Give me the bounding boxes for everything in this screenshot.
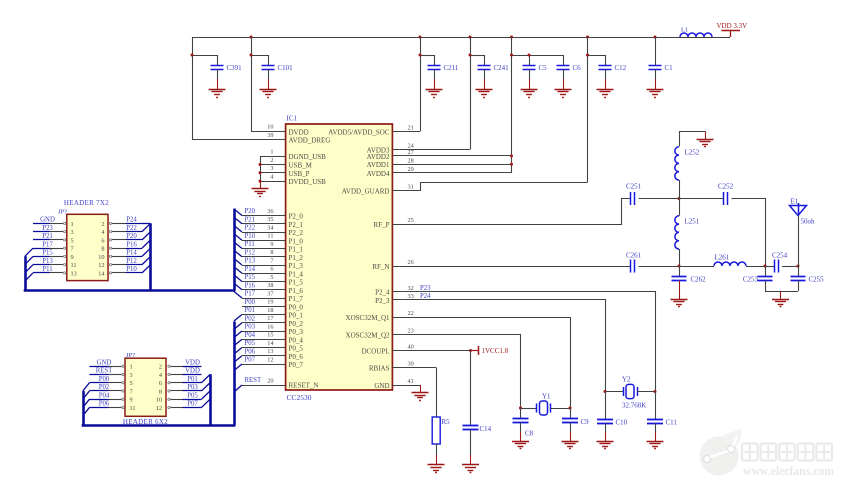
capacitor C12 [599,64,627,89]
svg-text:P13: P13 [42,258,53,265]
svg-text:USB_P: USB_P [289,170,310,178]
svg-text:AVDD_GUARD: AVDD_GUARD [342,187,390,195]
svg-text:P10: P10 [245,233,256,240]
svg-text:Y2: Y2 [622,376,631,384]
svg-text:7: 7 [130,388,133,395]
capacitor C101 [262,64,294,89]
svg-text:L251: L251 [685,218,700,226]
svg-text:C14: C14 [480,425,492,433]
svg-text:32.768K: 32.768K [622,402,646,410]
svg-text:L261: L261 [715,254,730,262]
svg-text:C9: C9 [581,418,590,426]
svg-text:CC2530: CC2530 [287,393,312,402]
svg-text:P0_1: P0_1 [289,312,304,320]
svg-text:P24: P24 [420,293,431,300]
svg-text:www.elecfans.com: www.elecfans.com [743,464,835,478]
wire JP7 bottom bus [24,289,236,292]
resistor R5 [432,417,450,444]
wire C211 branch [419,37,435,131]
svg-text:8: 8 [270,249,273,256]
svg-text:P05: P05 [245,340,256,347]
wire P-port pin stubs [242,216,286,365]
svg-text:37: 37 [267,290,273,297]
svg-text:P22: P22 [126,225,137,232]
svg-text:36: 36 [267,208,273,215]
svg-text:P04: P04 [99,392,110,399]
wire JP6 bottom bus [82,424,236,427]
svg-text:20: 20 [267,377,273,384]
svg-text:C6: C6 [573,64,582,72]
wire JP6 left bus entries [83,383,90,416]
svg-text:P12: P12 [245,249,256,256]
ground [412,393,429,401]
svg-text:17: 17 [267,315,273,322]
wire C5 C6 branch [510,37,564,173]
wire RESET_N stub [242,385,286,387]
svg-text:6: 6 [159,380,162,387]
svg-text:C241: C241 [494,64,510,72]
svg-text:P03: P03 [245,324,256,331]
svg-text:RESET_N: RESET_N [289,382,319,390]
svg-text:40: 40 [408,344,414,351]
svg-text:30: 30 [408,361,414,368]
svg-text:39: 39 [267,132,273,139]
svg-text:10: 10 [156,397,162,404]
capacitor C8 [513,408,534,441]
svg-text:XOSC32M_Q1: XOSC32M_Q1 [346,314,390,322]
svg-text:C251: C251 [626,183,642,191]
svg-text:9: 9 [71,254,74,261]
svg-text:L252: L252 [685,149,700,157]
svg-text:C253: C253 [743,276,759,284]
svg-text:28: 28 [408,157,414,164]
svg-text:32: 32 [408,285,414,292]
capacitor C5 [523,64,548,89]
ground [209,90,226,98]
ground [562,442,579,449]
capacitor C9 [562,408,589,441]
svg-text:P21: P21 [245,216,256,223]
svg-text:C261: C261 [626,252,642,260]
wire JP6 left bus [82,391,85,426]
svg-text:P15: P15 [245,274,256,281]
wire JP6 right bus [209,374,212,425]
wire JP7 right bus entries [142,223,151,272]
svg-text:38: 38 [267,282,273,289]
wire C252 to RFN node [732,199,766,267]
antenna E1 [790,198,816,226]
wire top power rail [192,37,730,140]
capacitor C251 [626,183,642,206]
svg-text:AVDD5/AVDD_SOC: AVDD5/AVDD_SOC [328,128,390,136]
svg-text:RF_N: RF_N [372,263,389,271]
svg-text:VDD: VDD [185,359,200,366]
ground [512,442,529,449]
svg-text:9: 9 [270,241,273,248]
svg-text:34: 34 [267,224,274,231]
svg-text:8: 8 [101,246,104,253]
ground [476,90,493,98]
svg-text:P22: P22 [245,225,256,232]
svg-text:P12: P12 [126,258,137,265]
svg-text:GND: GND [40,217,55,224]
svg-text:P24: P24 [126,217,137,224]
svg-text:AVDD4: AVDD4 [367,170,390,178]
wire pin29 AVDD4 [392,172,511,174]
svg-text:P16: P16 [245,282,256,289]
wire bus entries P01-P07 and REST [234,315,242,393]
ground [647,90,664,98]
svg-text:L1: L1 [681,27,688,34]
svg-text:P07: P07 [245,357,256,364]
wire JP6 right bus entries [202,375,211,408]
svg-text:USB_M: USB_M [289,162,313,170]
svg-text:18: 18 [267,307,273,314]
svg-text:P02: P02 [245,315,256,322]
svg-text:11: 11 [71,262,77,269]
svg-text:VDD 3.3V: VDD 3.3V [717,22,748,30]
svg-text:GND: GND [97,359,112,366]
ground [426,90,443,98]
wire pin26 RF_N [392,266,630,268]
svg-text:13: 13 [267,348,273,355]
ground [555,90,572,98]
svg-text:C10: C10 [616,419,628,427]
svg-text:1: 1 [270,149,273,156]
svg-text:C252: C252 [718,183,734,191]
wire pin25 RF_P [393,199,631,225]
wire USB pins to ground [259,156,286,188]
svg-text:P2_4: P2_4 [375,289,390,297]
wire C241 branch [469,37,485,149]
inductor L261 [714,254,746,267]
capacitor C241 [478,64,510,89]
wire pin39 AVDD_DREG [192,139,286,141]
svg-text:P1_1: P1_1 [289,246,304,254]
wire node to L261 [679,266,714,268]
svg-text:XOSC32M_Q2: XOSC32M_Q2 [346,332,390,340]
svg-text:19: 19 [267,299,273,306]
wire pin27 AVDD2 [392,154,513,157]
wire pin23 XOSC32M_Q2 [393,335,521,409]
svg-text:25: 25 [408,217,414,224]
svg-text:3: 3 [71,229,74,236]
svg-text:5: 5 [71,237,74,244]
svg-text:P1_3: P1_3 [289,262,304,270]
svg-text:11: 11 [130,405,136,412]
svg-text:REST: REST [245,377,262,384]
svg-text:P00: P00 [245,299,256,306]
svg-text:50oh: 50oh [801,218,816,226]
svg-text:REST: REST [96,368,113,375]
svg-text:P23: P23 [42,225,53,232]
wire bottom RF rail [765,291,798,299]
svg-text:P1_2: P1_2 [289,254,304,262]
svg-text:23: 23 [408,328,414,335]
ground [260,90,277,98]
wire L261 to C254 node [746,265,767,268]
ground [597,442,614,449]
svg-text:12: 12 [98,262,104,269]
svg-text:C101: C101 [278,64,294,72]
svg-text:AVDD1: AVDD1 [367,161,390,169]
svg-text:P2_1: P2_1 [289,221,304,229]
svg-text:HEADER 7X2: HEADER 7X2 [64,199,109,207]
svg-text:P20: P20 [245,208,256,215]
wire C261 to node [639,265,681,268]
svg-text:10: 10 [267,124,273,131]
svg-text:C12: C12 [615,64,627,72]
svg-text:15: 15 [267,332,273,339]
svg-text:1: 1 [130,364,133,371]
svg-text:C211: C211 [444,64,459,72]
svg-text:16: 16 [267,323,273,330]
capacitor C391 [211,64,243,89]
svg-text:C8: C8 [525,430,534,438]
svg-text:1: 1 [71,221,74,228]
svg-text:P21: P21 [42,233,53,240]
svg-text:P00: P00 [99,376,110,383]
inductor L1 [680,27,712,38]
svg-text:P07: P07 [187,401,198,408]
capacitor C10 [597,392,628,442]
wire pin33 P2_3 [393,293,606,392]
capacitor C262 [672,266,707,299]
svg-text:DGND_USB: DGND_USB [289,153,327,161]
capacitor C253 [743,266,773,291]
svg-text:8: 8 [159,388,162,395]
svg-text:21: 21 [408,125,414,132]
wire pin32 P2_4 [393,285,656,392]
svg-text:P11: P11 [42,266,52,273]
svg-text:6: 6 [101,237,104,244]
svg-text:P2_2: P2_2 [289,229,304,237]
wire C1 drop [655,37,657,66]
wire antenna feed [798,216,800,267]
svg-text:RBIAS: RBIAS [369,365,390,373]
wire L1 to VDD [712,37,730,39]
svg-text:VDD: VDD [185,368,200,375]
svg-text:C391: C391 [227,64,243,72]
node bus junctions on rail [250,36,657,39]
svg-text:P23: P23 [420,285,431,292]
wire vertical bus at IC lower [233,322,236,426]
svg-text:2: 2 [270,157,273,164]
capacitor C255 [791,266,825,291]
wire pin22 XOSC32M_Q1 [393,318,571,409]
svg-text:26: 26 [408,259,414,266]
svg-text:P0_7: P0_7 [289,361,304,369]
svg-text:13: 13 [71,270,77,277]
svg-text:22: 22 [408,310,414,317]
svg-text:10: 10 [98,254,104,261]
wire JP6 right pin stubs [168,359,202,408]
wire L251 leads [679,199,681,267]
capacitor C1 [649,64,674,89]
svg-text:P04: P04 [245,332,256,339]
power 1VCC1.8 [471,346,509,355]
svg-text:P05: P05 [187,392,198,399]
svg-text:31: 31 [408,184,414,191]
svg-text:Y1: Y1 [542,392,551,400]
svg-text:DVDD_USB: DVDD_USB [289,178,327,186]
crystal Y2 [604,376,657,410]
svg-text:14: 14 [267,340,274,347]
svg-text:P01: P01 [245,307,256,314]
ground [428,465,445,473]
svg-text:P0_6: P0_6 [289,353,304,361]
svg-text:AVDD_DREG: AVDD_DREG [289,137,331,145]
node net label REST [245,377,262,384]
svg-text:P2_0: P2_0 [289,213,304,221]
wire JP7 right pin stubs [109,217,142,274]
wire pin21 AVDD5 [392,131,420,133]
svg-text:P10: P10 [126,266,137,273]
svg-text:E1: E1 [791,198,799,206]
wire pin31 AVDD_GUARD [393,183,588,191]
ground [647,442,664,449]
svg-text:C262: C262 [691,276,707,284]
svg-text:P0_3: P0_3 [289,328,304,336]
svg-text:AVDD2: AVDD2 [367,153,390,161]
svg-text:P0_5: P0_5 [289,345,304,353]
svg-text:DVDD: DVDD [289,128,309,136]
wire node to C252 [679,198,724,200]
svg-text:P1_5: P1_5 [289,279,304,287]
power VDD 3.3V [717,22,748,37]
svg-text:GND: GND [374,382,389,390]
capacitor C211 [428,64,459,89]
ground [697,140,714,147]
wire JP6 left pin stubs [90,359,125,408]
svg-text:P02: P02 [99,384,110,391]
ground [462,465,479,473]
svg-text:IC1: IC1 [287,115,298,123]
wire JP7 right bus [149,223,152,290]
svg-text:P16: P16 [126,241,137,248]
svg-text:2: 2 [159,364,162,371]
svg-text:11: 11 [267,233,273,240]
svg-text:P14: P14 [245,266,256,273]
svg-text:3: 3 [130,372,133,379]
svg-text:3: 3 [270,165,273,172]
wire bus entries P20-P17 [234,209,242,298]
wire JP7 left pin stubs [33,217,66,274]
wire C101 branch [250,37,269,131]
inductor L251 [675,216,700,249]
svg-text:5: 5 [270,274,273,281]
svg-text:C1: C1 [665,64,674,72]
svg-text:P06: P06 [99,401,110,408]
svg-text:P11: P11 [245,241,255,248]
connector JP6 HEADER 6X2 [123,352,168,426]
node P-port net labels [245,208,256,364]
svg-text:1VCC1.8: 1VCC1.8 [482,347,509,355]
svg-text:5: 5 [130,380,133,387]
capacitor C252 [718,183,734,206]
wire pin40 DCOUPL [392,349,472,426]
inductor L252 [675,147,700,180]
ground [597,90,614,98]
ground [772,300,789,307]
svg-text:C255: C255 [809,276,825,284]
svg-text:P1_7: P1_7 [289,295,304,303]
svg-text:C11: C11 [666,419,678,427]
ground [671,300,688,307]
wire C391 branch [191,54,218,66]
svg-text:C5: C5 [539,64,548,72]
svg-text:P03: P03 [187,384,198,391]
capacitor C254 [772,252,788,273]
wire pin30 RBIAS [392,368,436,418]
svg-text:P0_0: P0_0 [289,303,304,311]
IC1 pin numbers [267,124,414,386]
svg-text:P17: P17 [42,241,53,248]
capacitor C6 [557,64,582,89]
svg-text:P14: P14 [126,250,137,257]
svg-text:P20: P20 [126,233,137,240]
capacitor C14 [463,425,492,465]
svg-text:DCOUPL: DCOUPL [361,348,389,356]
wire pin28 AVDD1 [392,163,513,166]
svg-text:P0_4: P0_4 [289,336,304,344]
svg-text:JP?: JP? [126,352,135,359]
capacitor C261 [626,252,642,273]
svg-text:P1_0: P1_0 [289,237,304,245]
ground [252,189,269,197]
svg-text:P0_2: P0_2 [289,320,304,328]
IC IC1 CC2530 body [286,115,393,402]
connector JP7 HEADER 7X2 [58,199,109,281]
wire C254 right [765,265,800,268]
svg-text:9: 9 [130,397,133,404]
svg-text:JP?: JP? [58,208,67,215]
wire pin10 DVDD [251,131,286,133]
svg-text:12: 12 [267,356,273,363]
svg-text:RF_P: RF_P [374,221,390,229]
wire vertical bus at IC upper [233,209,236,291]
ground [521,90,538,98]
wire C251 to node [639,197,681,200]
svg-text:12: 12 [156,405,162,412]
svg-text:P17: P17 [245,291,256,298]
svg-text:6: 6 [270,266,273,273]
wire L252 top to ground [680,132,706,199]
wire C12 branch [586,37,606,182]
svg-text:R5: R5 [442,418,451,426]
svg-text:C254: C254 [772,252,788,260]
svg-text:P1_6: P1_6 [289,287,304,295]
svg-text:P2_3: P2_3 [375,297,390,305]
svg-text:P1_4: P1_4 [289,270,304,278]
svg-text:35: 35 [267,216,273,223]
svg-text:2: 2 [101,221,104,228]
wire JP7 left bus entries [25,248,33,281]
wire pin41 GND [392,385,420,393]
wire R5 to ground [436,444,438,465]
svg-text:P06: P06 [245,348,256,355]
svg-text:7: 7 [71,246,74,253]
crystal Y1 [519,392,572,415]
svg-text:P15: P15 [42,250,53,257]
watermark elecfans logo [700,428,835,478]
capacitor C11 [647,392,677,442]
svg-text:P13: P13 [245,258,256,265]
wire pin24 AVDD3 [392,149,470,151]
IC1 pin name labels [289,128,390,390]
svg-text:14: 14 [98,270,105,277]
svg-text:P01: P01 [187,376,198,383]
